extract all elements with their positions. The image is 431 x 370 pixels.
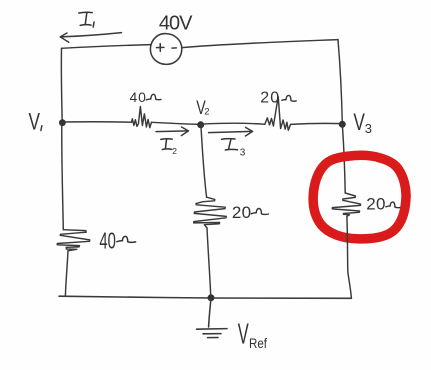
label 20ohm middle omega squiggle <box>251 208 268 214</box>
label 20ohm (middle resistor) <box>232 203 252 222</box>
svg-text:3: 3 <box>240 148 246 159</box>
wire: right vertical (top-right corner down to V3) <box>338 40 342 124</box>
resistor R3 40ohm left vertical scribble <box>57 230 89 251</box>
wire: left vertical (top-left corner down to V1) <box>60 48 63 121</box>
current arrow I1 (pointing left) <box>60 33 121 43</box>
svg-text:2: 2 <box>204 106 209 117</box>
label 40ohm (top resistor) <box>130 89 147 105</box>
label 40ohm (left resistor) <box>99 227 116 253</box>
node V3 (dot) <box>339 121 346 128</box>
svg-text:20: 20 <box>232 203 252 222</box>
wire: resistor R1 to V2 <box>152 122 201 124</box>
label 40ohm top omega squiggle <box>146 94 161 100</box>
svg-text:20: 20 <box>260 90 280 107</box>
wire: V1 to resistor R1 <box>62 121 131 123</box>
wire: V2 down to resistor R4 <box>201 125 207 197</box>
svg-text:V: V <box>353 109 365 136</box>
wire: resistor R4 to ground junction <box>207 228 211 298</box>
node V2 (dot) <box>197 121 204 128</box>
label 40ohm left omega squiggle <box>117 236 136 242</box>
current arrow I2 (pointing right) <box>156 127 189 136</box>
svg-text:3: 3 <box>365 121 372 136</box>
current arrow I3 (pointing right) <box>209 127 253 136</box>
resistor R1 40ohm horizontal zigzag <box>132 107 152 128</box>
ground symbol <box>197 298 228 338</box>
svg-text:40V: 40V <box>159 13 193 35</box>
wire: V2 to resistor R2 <box>201 123 265 124</box>
label 20ohm (top resistor 2) <box>260 90 280 107</box>
svg-text:V: V <box>238 319 249 351</box>
svg-text:40: 40 <box>99 227 116 253</box>
ground junction node (dot) <box>208 294 215 301</box>
label V1 subscript tick <box>41 126 42 131</box>
voltage source VS 40V (circle with + -) <box>150 34 181 65</box>
label V2 <box>196 98 209 119</box>
resistor R5 20ohm right vertical scribble <box>332 193 360 216</box>
resistor R4 20ohm middle vertical scribble <box>194 197 227 228</box>
wire: resistor R5 to bottom-right corner <box>347 216 352 298</box>
label 20ohm (right resistor, inside circle) <box>366 195 386 214</box>
label 20ohm top omega squiggle <box>282 95 297 101</box>
label I1 (hand-drawn I with subscript 1) <box>79 12 94 27</box>
wire: top-left horizontal (corner to source +) <box>62 45 151 49</box>
wire: resistor R3 to bottom-left corner <box>65 251 68 296</box>
label 20ohm right omega squiggle <box>386 202 400 208</box>
label 40V <box>159 13 193 35</box>
svg-text:2: 2 <box>172 146 177 156</box>
node V1 (dot) <box>59 119 66 126</box>
label VRef <box>238 319 267 352</box>
label I2 (hand-drawn I with subscript 2) <box>161 139 172 150</box>
bottom wire (bottom-right corner to bottom-left corner) <box>59 296 351 298</box>
svg-text:40: 40 <box>130 89 147 105</box>
wire: V3 down to resistor R5 <box>342 124 345 193</box>
svg-text:20: 20 <box>366 195 386 214</box>
wire: V1 down to resistor R3 <box>62 126 64 230</box>
label I3 (hand-drawn I with subscript 3) <box>222 139 238 150</box>
svg-text:Ref: Ref <box>249 335 267 351</box>
label V1 <box>29 109 41 136</box>
label V3 <box>353 109 372 136</box>
resistor R2 20ohm horizontal zigzag <box>265 97 291 131</box>
wire: resistor R2 to V3 <box>291 123 343 124</box>
wire: top-right horizontal (source to top-right corner) <box>182 40 338 48</box>
svg-text:V: V <box>29 109 41 136</box>
red annotation circle <box>313 155 406 239</box>
